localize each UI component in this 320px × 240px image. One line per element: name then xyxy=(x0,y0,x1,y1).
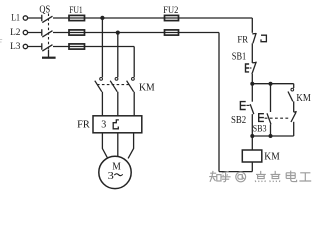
svg-text:L2: L2 xyxy=(10,27,20,38)
svg-text:FR: FR xyxy=(77,119,90,130)
svg-text:L3: L3 xyxy=(10,41,20,52)
svg-text:L1: L1 xyxy=(11,13,20,24)
svg-text:3: 3 xyxy=(108,171,114,182)
svg-text:KM: KM xyxy=(139,83,155,94)
svg-text:FR: FR xyxy=(237,34,248,45)
svg-text:FU1: FU1 xyxy=(69,5,83,16)
svg-text:SB2: SB2 xyxy=(231,115,246,126)
svg-text:SB1: SB1 xyxy=(232,51,246,62)
svg-text:QS: QS xyxy=(39,4,50,15)
svg-text:FU2: FU2 xyxy=(163,5,178,16)
svg-text:KM: KM xyxy=(296,93,310,104)
svg-text:KM: KM xyxy=(264,151,279,162)
svg-text:3: 3 xyxy=(101,119,106,130)
svg-text:SB3: SB3 xyxy=(253,124,267,134)
